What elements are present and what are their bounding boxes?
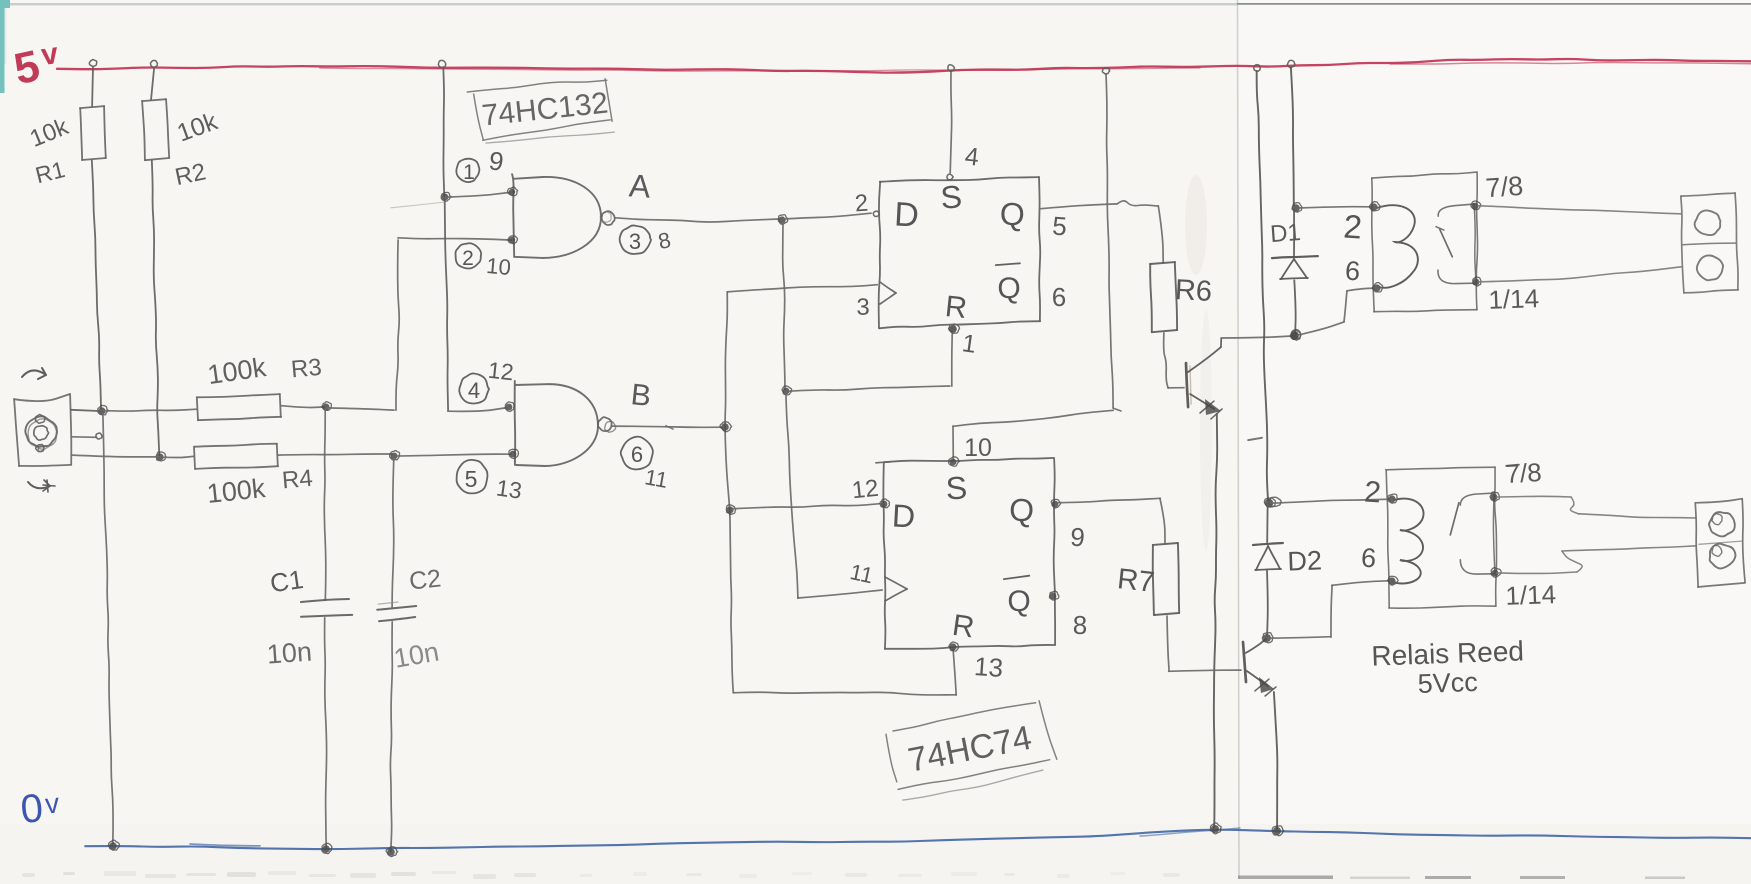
transistor Q2 emitter (1247, 671, 1268, 686)
nand gate A body (512, 174, 601, 258)
wire encoder B to R4 (72, 455, 158, 457)
FF2 Q pin (1052, 501, 1059, 508)
wire FF2 Q to R7 (1058, 498, 1160, 502)
wire rail to R2 (151, 68, 154, 100)
junction FF1-R branch (783, 388, 790, 395)
svg-text:10: 10 (485, 253, 512, 280)
circled 3 (620, 225, 651, 254)
gate A input pin 9 (509, 189, 515, 195)
wire FF1 S to 5v (950, 71, 951, 173)
relay2 coil pin2 (1388, 495, 1395, 502)
svg-text:5: 5 (1051, 211, 1068, 242)
svg-text:D: D (893, 195, 920, 234)
wire gate A output (615, 218, 779, 222)
FF2 D pin (881, 501, 888, 508)
wire C1 node to gateA corner (328, 408, 394, 410)
wire node A down to 0v (103, 414, 113, 844)
wire to FF1 R (788, 386, 950, 391)
svg-text:6: 6 (631, 442, 643, 467)
relay2 coil (1392, 499, 1424, 584)
wire 5v to D2 node (1257, 71, 1268, 500)
relay2 reed switch (1460, 493, 1494, 505)
encoder ccw arrow (28, 482, 50, 488)
wire to gateA input1 (447, 192, 510, 197)
svg-text:2: 2 (854, 190, 869, 218)
node 5v-gates (438, 60, 445, 67)
svg-text:5Vcc: 5Vcc (1417, 667, 1478, 699)
output connector 2 (1695, 499, 1742, 503)
svg-text:C1: C1 (268, 564, 305, 598)
transistor Q1 emitter (1190, 394, 1214, 409)
svg-text:R3: R3 (290, 354, 323, 384)
74HC132 label box (467, 80, 607, 92)
junction D1-anode node (1291, 331, 1299, 339)
junction R4/C2 (391, 453, 398, 460)
circled 1 (456, 159, 479, 182)
wire relay1 to connector bottom (1479, 267, 1681, 282)
wire D1 anode to relay1 pin6 (1298, 322, 1344, 335)
svg-text:5: 5 (465, 466, 478, 492)
encoder outer circle (25, 416, 57, 446)
gate A input pin 10 (509, 237, 515, 243)
circled 2 (455, 243, 481, 268)
svg-text:13: 13 (495, 474, 524, 503)
wire D1 node to relay1 pin2 (1299, 207, 1371, 208)
wire R3 to C1 node (281, 406, 324, 408)
relay1 reed switch (1438, 204, 1474, 216)
junction Q2-emitter 0v (1273, 827, 1281, 835)
junction Q2-collector/D2 (1263, 634, 1271, 642)
wire C2 to 0v (390, 622, 392, 852)
svg-text:R: R (943, 290, 968, 325)
encoder cw arrow (22, 370, 46, 377)
wire down to gateB pin12 (445, 199, 448, 410)
svg-text:13: 13 (973, 651, 1004, 683)
resistor R2 (142, 99, 166, 101)
transistor Q1 collector (1188, 347, 1221, 372)
svg-text:6: 6 (1360, 543, 1377, 574)
wire C1 to 0v (325, 618, 327, 848)
wire C2 node to gateB input2 (397, 454, 511, 456)
encoder middle stub (72, 436, 96, 439)
scanner edge left (0, 0, 5, 93)
relay2 coil pin6 (1388, 577, 1395, 584)
wire R4 to C2 node (278, 454, 392, 455)
FF2 box (884, 458, 1054, 462)
svg-text:11: 11 (643, 464, 670, 493)
svg-text:3: 3 (629, 229, 641, 254)
wire B-node bottom to FF2 R (733, 692, 956, 695)
wire D2 anode to relay2 pin6 (1270, 637, 1331, 638)
wire FF1 clock feed (727, 285, 877, 292)
wire D2 node to relay2 pin2 (1272, 499, 1389, 503)
svg-text:10: 10 (964, 434, 992, 462)
svg-text:7/8: 7/8 (1505, 457, 1543, 489)
relay2 contact pin 1/14 (1492, 570, 1499, 577)
junction B-node (721, 423, 729, 431)
svg-text:Q: Q (999, 196, 1025, 233)
svg-text:8: 8 (1073, 610, 1087, 640)
wire C1 node down (324, 410, 326, 600)
junction D1-cathode node (1292, 204, 1300, 212)
wire R2 to node B (152, 160, 160, 455)
svg-text:S: S (939, 178, 963, 215)
encoder inner circle (34, 426, 49, 440)
svg-text:1/14: 1/14 (1488, 283, 1540, 315)
FF2 R pin (949, 643, 956, 650)
transistor Q2 base bar (1243, 642, 1246, 682)
svg-text:4: 4 (468, 378, 480, 403)
FF2 clock triangle (885, 577, 907, 589)
wire R6 to Q1 base (1164, 333, 1168, 388)
transistor Q2 collector (1246, 639, 1266, 653)
svg-text:R7: R7 (1116, 563, 1156, 599)
junction Q1-collector/D1 (1291, 332, 1299, 340)
svg-text:v: v (44, 787, 61, 819)
svg-text:A: A (628, 167, 652, 204)
svg-text:D2: D2 (1287, 545, 1323, 576)
node 5v-FF2S (1102, 68, 1109, 74)
wire FF1 Q to R6 (1041, 204, 1117, 209)
svg-text:12: 12 (851, 475, 880, 505)
gate A output bubble (602, 211, 615, 225)
relay1 contact pin 1/14 (1473, 279, 1480, 286)
capacitor C1 (301, 599, 349, 602)
svg-text:1/14: 1/14 (1505, 579, 1557, 611)
wire encoder A to R3 (71, 410, 102, 411)
svg-text:2: 2 (1363, 475, 1382, 509)
relay2 outer box (1386, 467, 1495, 470)
junction C2 0v (387, 848, 395, 856)
wire up to gateA input2 (396, 240, 399, 410)
wire R1 to node A (92, 160, 101, 408)
wire relay2 to connector top (1497, 495, 1571, 498)
paper fold line (1238, 0, 1240, 879)
svg-text:2: 2 (462, 247, 474, 270)
wire Q1 emitter to 0v (1214, 414, 1217, 827)
relay1 coil pin6 (1373, 284, 1380, 291)
svg-text:3: 3 (856, 294, 869, 321)
junction D2-cathode node (1265, 499, 1273, 507)
wire rail to R1 (91, 67, 94, 107)
bottom cut-off handwriting smudge (22, 873, 35, 877)
svg-text:D1: D1 (1269, 219, 1301, 248)
wire 5v to FF2 S (1106, 74, 1113, 408)
junction Q1-emitter 0v (1211, 825, 1219, 833)
output connector 1 (1681, 193, 1735, 196)
svg-text:Q: Q (1008, 491, 1035, 528)
junction C1 0v (322, 845, 330, 853)
scanner edge top (0, 3, 1237, 5)
wire A to FF1 D (785, 213, 871, 219)
node 5v-R1 (89, 60, 97, 67)
svg-text:7/8: 7/8 (1485, 171, 1525, 204)
wire to FF2 D (733, 504, 880, 509)
diode D1 (1293, 210, 1295, 257)
wire 5v down to gateA pin9 (443, 68, 444, 196)
svg-text:Q: Q (997, 272, 1020, 305)
svg-text:12: 12 (487, 357, 515, 386)
relay1 coil (1377, 205, 1418, 288)
junction encoder-B/R2 (156, 453, 163, 460)
diode D2 (1266, 506, 1268, 542)
wire relay1 to connector top (1478, 206, 1681, 214)
svg-text:10n: 10n (266, 636, 313, 669)
junction encoder-A/R1 (98, 407, 105, 414)
junction 0v rail left (109, 842, 117, 850)
svg-text:B: B (629, 378, 652, 413)
svg-text:9: 9 (1069, 522, 1086, 553)
FF1 S pin circle (947, 174, 953, 180)
stray pencil stroke (391, 202, 445, 208)
FF1 clock triangle (880, 282, 896, 293)
wire Q2 emitter to 0v (1274, 692, 1277, 829)
node 5v-D2 (1254, 65, 1260, 72)
gate B output bubble (598, 417, 612, 431)
nand gate B body (515, 381, 598, 466)
node 5v-R2 (150, 60, 157, 67)
circled 5 (457, 460, 488, 494)
relay1 contact pin 7/8 (1472, 203, 1479, 210)
circled 4 (459, 373, 489, 403)
resistor R6 (1150, 262, 1175, 264)
svg-text:2: 2 (1342, 207, 1363, 245)
pencil tick (1248, 438, 1262, 440)
FF2 Qbar pin (1050, 593, 1057, 600)
wire 5v to D1 node (1291, 68, 1294, 205)
junction R3/C1 (323, 404, 330, 411)
svg-text:6: 6 (1344, 256, 1361, 287)
FF2 S pin (950, 459, 957, 466)
74HC74 label box (893, 703, 1036, 731)
FF1 box (880, 177, 1039, 182)
junction gateA pin9 (442, 194, 449, 201)
junction A-node (778, 216, 785, 223)
junction FF2-D branch (726, 506, 733, 513)
FF1 R pin (949, 325, 957, 333)
svg-text:6: 6 (1052, 282, 1066, 312)
encoder bottom dot (36, 444, 45, 451)
relay1 coil pin2 (1370, 203, 1377, 210)
node 5v-FF1S (948, 65, 955, 72)
wire relay2 to connector bottom (1497, 572, 1577, 573)
node 5v-D1 (1287, 60, 1295, 67)
resistor R3 (197, 394, 280, 397)
gate B input pin 12 (506, 404, 513, 411)
svg-text:100k: 100k (205, 473, 267, 509)
svg-text:S: S (945, 469, 968, 506)
svg-text:R6: R6 (1174, 274, 1213, 308)
power rail 5V (red) (57, 59, 1751, 73)
wire gate B output (612, 426, 722, 427)
wire B-node vertical (725, 292, 733, 693)
wire A-node down (783, 222, 785, 389)
wire R7 to Q2 base (1167, 616, 1169, 671)
svg-text:0: 0 (19, 786, 45, 832)
encoder top dot (35, 415, 44, 424)
smudge ghost near R6 (1185, 175, 1207, 275)
svg-text:Q: Q (1007, 585, 1030, 618)
transistor Q1 base bar (1186, 363, 1188, 407)
svg-text:R: R (950, 609, 976, 645)
svg-text:C2: C2 (408, 564, 443, 595)
wire A-node to FF2 clock (786, 393, 798, 598)
svg-text:Relais Reed: Relais Reed (1371, 635, 1525, 671)
relay2 contact pin 7/8 (1491, 494, 1498, 501)
rotary encoder body (14, 394, 70, 401)
circled 6 (621, 437, 653, 470)
relay1 outer box (1372, 172, 1477, 178)
wire C2 node down (392, 458, 394, 607)
svg-text:D: D (891, 497, 916, 534)
power rail 0V (blue) (85, 830, 1751, 849)
resistor R1 (80, 106, 104, 108)
resistor R4 (194, 444, 277, 447)
svg-text:1: 1 (463, 161, 475, 184)
gate B input pin 13 (510, 451, 517, 458)
resistor R7 (1153, 543, 1178, 545)
svg-text:R4: R4 (281, 465, 314, 495)
FF1 D pin circle (873, 211, 879, 216)
capacitor C2 (377, 606, 416, 610)
